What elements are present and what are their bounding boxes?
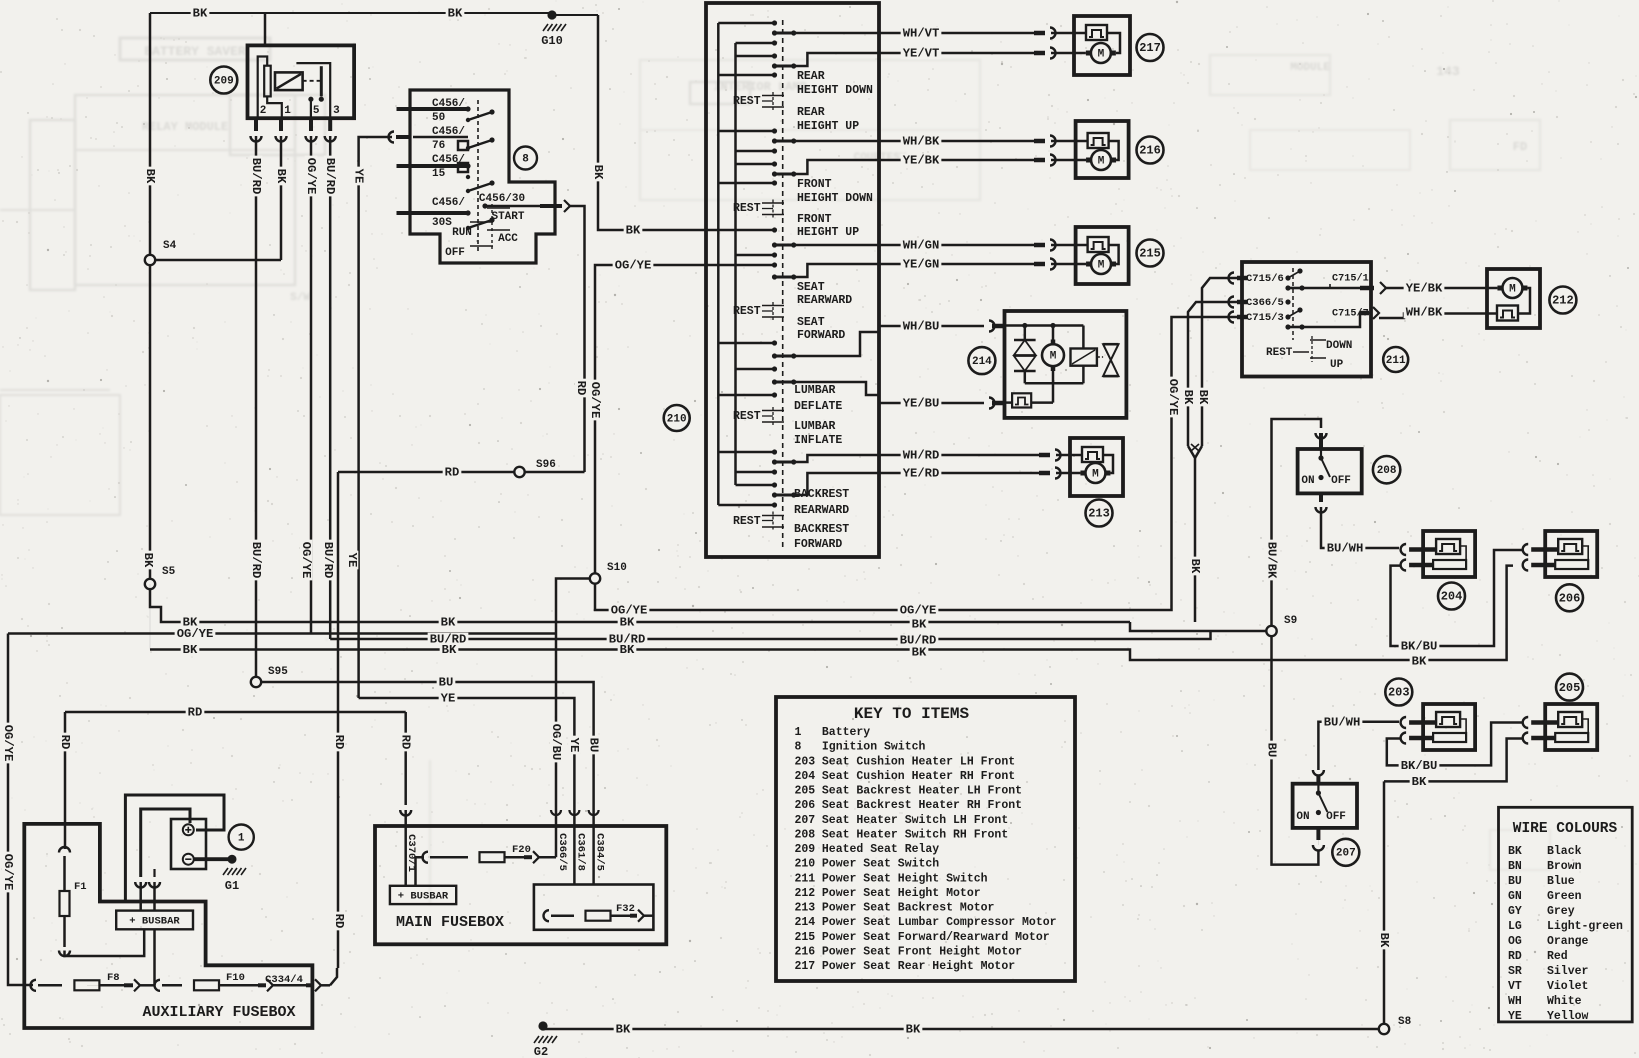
svg-text:BK: BK — [1188, 559, 1202, 574]
svg-text:207: 207 — [1336, 848, 1356, 860]
svg-text:BK: BK — [626, 224, 641, 238]
svg-text:KEY TO ITEMS: KEY TO ITEMS — [854, 705, 970, 723]
svg-text:Brown: Brown — [1547, 860, 1582, 873]
svg-text:YE/VT: YE/VT — [903, 47, 940, 61]
svg-text:F10: F10 — [226, 972, 245, 984]
svg-text:216: 216 — [1139, 144, 1161, 158]
svg-text:213: 213 — [1088, 507, 1110, 521]
svg-text:OG/YE: OG/YE — [1, 725, 15, 762]
svg-text:REST: REST — [733, 410, 761, 423]
svg-text:212: 212 — [1552, 294, 1574, 308]
svg-text:Battery: Battery — [822, 726, 870, 739]
svg-text:BK: BK — [620, 643, 635, 657]
svg-text:Seat Heater Switch LH Front: Seat Heater Switch LH Front — [822, 814, 1008, 827]
svg-text:C456/: C456/ — [432, 197, 465, 209]
svg-text:Power Seat Lumbar Compressor M: Power Seat Lumbar Compressor Motor — [822, 916, 1057, 929]
svg-text:S4: S4 — [163, 240, 177, 252]
svg-text:Violet: Violet — [1547, 980, 1588, 993]
svg-text:BK: BK — [193, 7, 208, 21]
svg-text:REARWARD: REARWARD — [797, 294, 852, 307]
svg-text:C366/5: C366/5 — [556, 833, 568, 871]
svg-text:SEAT: SEAT — [797, 316, 825, 329]
svg-text:216: 216 — [795, 945, 816, 958]
svg-text:WH/GN: WH/GN — [903, 239, 940, 253]
svg-text:RD: RD — [574, 381, 588, 396]
svg-text:BK: BK — [1412, 655, 1427, 669]
svg-text:S96: S96 — [536, 459, 556, 471]
svg-text:FRONT: FRONT — [797, 178, 832, 191]
svg-text:C715/3: C715/3 — [1246, 312, 1284, 324]
svg-text:8: 8 — [795, 741, 802, 754]
svg-text:Power Seat Switch: Power Seat Switch — [822, 858, 939, 871]
svg-text:REST: REST — [733, 515, 761, 528]
svg-text:BK: BK — [1181, 390, 1195, 405]
svg-text:LUMBAR: LUMBAR — [794, 420, 836, 433]
svg-text:REAR: REAR — [797, 106, 825, 119]
svg-text:M: M — [1050, 351, 1057, 363]
svg-text:210: 210 — [667, 413, 687, 425]
svg-text:YE/RD: YE/RD — [903, 467, 940, 481]
svg-text:LG: LG — [1508, 920, 1522, 933]
svg-text:215: 215 — [795, 931, 816, 944]
svg-text:C715/6: C715/6 — [1246, 273, 1284, 285]
svg-text:YE/BK: YE/BK — [1406, 282, 1443, 296]
svg-text:BK: BK — [442, 643, 457, 657]
svg-text:OG/YE: OG/YE — [588, 382, 602, 419]
svg-text:BU: BU — [1264, 743, 1278, 758]
svg-text:YE/GN: YE/GN — [903, 258, 940, 272]
svg-text:204: 204 — [1441, 590, 1463, 604]
svg-text:YE: YE — [441, 692, 456, 706]
svg-text:Seat Cushion Heater RH Front: Seat Cushion Heater RH Front — [822, 770, 1015, 783]
svg-text:REST: REST — [733, 202, 761, 215]
svg-text:White: White — [1547, 995, 1582, 1008]
svg-text:Seat Backrest Heater RH Front: Seat Backrest Heater RH Front — [822, 799, 1022, 812]
svg-text:BACKREST: BACKREST — [794, 488, 849, 501]
svg-text:OFF: OFF — [1331, 475, 1351, 487]
svg-text:BU: BU — [1508, 875, 1522, 888]
svg-text:C370/1: C370/1 — [405, 834, 417, 872]
svg-text:BU/BK: BU/BK — [1264, 542, 1278, 579]
svg-text:GN: GN — [1508, 890, 1522, 903]
svg-text:DEFLATE: DEFLATE — [794, 400, 842, 413]
svg-text:Green: Green — [1547, 890, 1582, 903]
svg-text:Power Seat Forward/Rearward Mo: Power Seat Forward/Rearward Motor — [822, 931, 1050, 944]
svg-text:Grey: Grey — [1547, 905, 1575, 918]
svg-text:215: 215 — [1139, 247, 1161, 261]
svg-text:M: M — [1098, 259, 1105, 271]
svg-text:205: 205 — [1559, 681, 1581, 695]
svg-text:208: 208 — [1377, 465, 1397, 477]
svg-text:RD: RD — [398, 735, 412, 750]
svg-text:50: 50 — [432, 112, 445, 124]
svg-text:M: M — [1092, 468, 1099, 480]
svg-text:F32: F32 — [616, 903, 635, 915]
svg-text:RD: RD — [58, 735, 72, 750]
svg-text:203: 203 — [1388, 686, 1410, 700]
svg-text:76: 76 — [432, 140, 445, 152]
svg-text:MAIN FUSEBOX: MAIN FUSEBOX — [396, 914, 504, 931]
svg-text:S8: S8 — [1398, 1016, 1412, 1028]
svg-text:Power Seat Backrest Motor: Power Seat Backrest Motor — [822, 902, 995, 915]
svg-text:1: 1 — [795, 726, 802, 739]
svg-text:BK: BK — [441, 616, 456, 630]
svg-text:212: 212 — [795, 887, 816, 900]
svg-text:Seat Backrest Heater LH Front: Seat Backrest Heater LH Front — [822, 785, 1022, 798]
svg-text:INFLATE: INFLATE — [794, 434, 842, 447]
svg-text:143: 143 — [1436, 64, 1460, 79]
svg-text:Yellow: Yellow — [1547, 1010, 1589, 1023]
svg-text:REST: REST — [733, 305, 761, 318]
svg-text:C366/5: C366/5 — [1246, 297, 1284, 309]
svg-text:206: 206 — [795, 799, 816, 812]
svg-text:RD: RD — [332, 914, 346, 929]
svg-text:BK: BK — [1377, 933, 1391, 948]
svg-text:OFF: OFF — [445, 247, 465, 259]
svg-text:BK: BK — [143, 169, 157, 184]
svg-text:ON: ON — [1301, 475, 1314, 487]
svg-text:217: 217 — [795, 960, 816, 973]
svg-text:210: 210 — [795, 858, 816, 871]
svg-text:VT: VT — [1508, 980, 1522, 993]
svg-text:OG/YE: OG/YE — [1, 854, 15, 891]
svg-text:RD: RD — [332, 735, 346, 750]
svg-text:F8: F8 — [107, 972, 120, 984]
svg-text:SR: SR — [1508, 965, 1522, 978]
svg-text:BU/RD: BU/RD — [321, 542, 335, 579]
svg-text:Ignition Switch: Ignition Switch — [822, 741, 926, 754]
svg-text:WH/BK: WH/BK — [903, 135, 940, 149]
svg-text:BK: BK — [448, 7, 463, 21]
svg-text:OG/YE: OG/YE — [615, 259, 652, 273]
svg-text:OG/YE: OG/YE — [177, 627, 214, 641]
svg-text:YE/BK: YE/BK — [903, 154, 940, 168]
svg-text:206: 206 — [1559, 591, 1581, 605]
svg-text:213: 213 — [795, 902, 816, 915]
svg-text:RD: RD — [1508, 950, 1522, 963]
svg-text:G1: G1 — [225, 879, 239, 893]
svg-text:BK: BK — [591, 165, 605, 180]
svg-text:BK: BK — [1196, 390, 1210, 405]
svg-text:BU/WH: BU/WH — [1327, 542, 1364, 556]
svg-text:BK: BK — [912, 618, 927, 632]
svg-text:F1: F1 — [74, 881, 87, 893]
svg-text:8: 8 — [522, 153, 529, 165]
svg-text:BK/BU: BK/BU — [1401, 640, 1438, 654]
svg-text:YE/BU: YE/BU — [903, 397, 940, 411]
svg-text:211: 211 — [1386, 355, 1406, 367]
svg-text:205: 205 — [795, 785, 816, 798]
svg-text:HEIGHT UP: HEIGHT UP — [797, 226, 859, 239]
svg-text:YE: YE — [1508, 1010, 1522, 1023]
svg-text:BU/RD: BU/RD — [249, 158, 263, 195]
svg-text:RD: RD — [445, 466, 460, 480]
svg-text:WIRE COLOURS: WIRE COLOURS — [1513, 821, 1618, 837]
svg-text:YE: YE — [351, 169, 365, 184]
svg-text:BK: BK — [906, 1023, 921, 1037]
svg-text:WH/BK: WH/BK — [1406, 306, 1443, 320]
svg-text:BK: BK — [183, 643, 198, 657]
svg-text:3: 3 — [333, 105, 340, 117]
svg-text:WH/RD: WH/RD — [903, 449, 940, 463]
svg-text:C384/5: C384/5 — [594, 833, 606, 871]
svg-text:S5: S5 — [162, 566, 176, 578]
svg-text:214: 214 — [795, 916, 816, 929]
svg-text:BK: BK — [912, 646, 927, 660]
svg-text:S95: S95 — [268, 666, 288, 678]
svg-text:HEIGHT DOWN: HEIGHT DOWN — [797, 84, 873, 97]
svg-text:BK: BK — [141, 553, 155, 568]
svg-text:YE: YE — [567, 738, 581, 753]
svg-text:Seat Heater Switch RH Front: Seat Heater Switch RH Front — [822, 828, 1008, 841]
svg-text:UP: UP — [1330, 359, 1344, 371]
svg-text:Seat Cushion Heater LH Front: Seat Cushion Heater LH Front — [822, 755, 1015, 768]
svg-text:M: M — [1509, 283, 1516, 295]
svg-text:203: 203 — [795, 755, 816, 768]
svg-text:REAR: REAR — [797, 70, 825, 83]
svg-text:S10: S10 — [607, 562, 627, 574]
svg-text:RD: RD — [188, 706, 203, 720]
svg-text:208: 208 — [795, 828, 816, 841]
svg-text:C456/30: C456/30 — [479, 193, 525, 205]
svg-text:FORWARD: FORWARD — [794, 538, 842, 551]
svg-text:Power Seat Height Switch: Power Seat Height Switch — [822, 872, 988, 885]
svg-text:OG/BU: OG/BU — [549, 724, 563, 761]
svg-text:211: 211 — [795, 872, 816, 885]
svg-text:WH: WH — [1508, 995, 1522, 1008]
svg-text:5: 5 — [313, 105, 320, 117]
svg-text:BATTERY SAVER: BATTERY SAVER — [144, 44, 246, 59]
svg-text:AUXILIARY FUSEBOX: AUXILIARY FUSEBOX — [142, 1004, 295, 1021]
svg-text:1: 1 — [284, 105, 291, 117]
svg-text:Power Seat Height Motor: Power Seat Height Motor — [822, 887, 981, 900]
svg-text:M: M — [1098, 48, 1105, 60]
svg-text:+ BUSBAR: + BUSBAR — [398, 890, 449, 902]
svg-text:Black: Black — [1547, 845, 1582, 858]
svg-text:ACC: ACC — [498, 233, 518, 245]
svg-text:BK: BK — [274, 169, 288, 184]
svg-text:YE: YE — [345, 553, 359, 568]
svg-text:HEIGHT DOWN: HEIGHT DOWN — [797, 192, 873, 205]
svg-text:OG/YE: OG/YE — [1166, 379, 1180, 416]
svg-text:2: 2 — [260, 105, 267, 117]
svg-text:BACKREST: BACKREST — [794, 523, 849, 536]
svg-text:209: 209 — [214, 75, 234, 87]
svg-text:C715/1: C715/1 — [1332, 273, 1369, 285]
svg-text:OFF: OFF — [1326, 811, 1346, 823]
svg-text:Orange: Orange — [1547, 935, 1589, 948]
svg-text:+ BUSBAR: + BUSBAR — [129, 915, 180, 927]
svg-text:207: 207 — [795, 814, 816, 827]
svg-text:SEAT: SEAT — [797, 281, 825, 294]
svg-text:START: START — [491, 211, 524, 223]
svg-text:BU/RD: BU/RD — [249, 542, 263, 579]
svg-text:ON: ON — [1296, 811, 1309, 823]
svg-text:REST: REST — [733, 95, 761, 108]
svg-text:C361/8: C361/8 — [575, 833, 587, 871]
svg-text:HEIGHT UP: HEIGHT UP — [797, 120, 859, 133]
svg-text:BK: BK — [616, 1023, 631, 1037]
svg-text:DOWN: DOWN — [1326, 340, 1352, 352]
svg-text:BK: BK — [1508, 845, 1522, 858]
svg-text:FRONT: FRONT — [797, 213, 832, 226]
svg-text:Red: Red — [1547, 950, 1568, 963]
svg-text:204: 204 — [795, 770, 816, 783]
svg-text:G10: G10 — [541, 34, 563, 48]
svg-text:G2: G2 — [534, 1045, 548, 1058]
svg-text:S9: S9 — [1284, 615, 1297, 627]
svg-text:BK: BK — [1412, 775, 1427, 789]
svg-text:BK/BU: BK/BU — [1401, 759, 1438, 773]
svg-text:REST: REST — [1266, 347, 1293, 359]
svg-text:WH/BU: WH/BU — [903, 320, 940, 334]
svg-text:F20: F20 — [512, 844, 531, 856]
svg-text:OG: OG — [1508, 935, 1522, 948]
svg-text:209: 209 — [795, 843, 816, 856]
svg-text:FD: FD — [1513, 140, 1527, 154]
svg-text:WH/VT: WH/VT — [903, 27, 940, 41]
svg-text:FORWARD: FORWARD — [797, 329, 845, 342]
svg-text:OG/YE: OG/YE — [304, 158, 318, 195]
svg-text:Light-green: Light-green — [1547, 920, 1623, 933]
svg-text:GY: GY — [1508, 905, 1522, 918]
svg-text:BK: BK — [620, 616, 635, 630]
svg-text:BN: BN — [1508, 860, 1522, 873]
svg-text:Silver: Silver — [1547, 965, 1589, 978]
svg-text:BU: BU — [586, 738, 600, 753]
svg-text:BU/WH: BU/WH — [1324, 715, 1361, 729]
svg-text:30S: 30S — [432, 217, 452, 229]
svg-text:Blue: Blue — [1547, 875, 1575, 888]
svg-text:15: 15 — [432, 168, 446, 180]
svg-text:S/W: S/W — [290, 292, 310, 304]
svg-text:RELAY MODULE: RELAY MODULE — [142, 120, 228, 134]
svg-text:OG/YE: OG/YE — [900, 604, 937, 618]
svg-text:M: M — [1098, 155, 1105, 167]
svg-text:217: 217 — [1139, 41, 1161, 55]
svg-text:Power Seat Rear Height Motor: Power Seat Rear Height Motor — [822, 960, 1015, 973]
svg-text:Power Seat Front Height Motor: Power Seat Front Height Motor — [822, 945, 1022, 958]
svg-text:1: 1 — [238, 833, 245, 845]
svg-text:BU/RD: BU/RD — [323, 158, 337, 195]
svg-text:Heated Seat Relay: Heated Seat Relay — [822, 843, 939, 856]
svg-text:BU: BU — [439, 676, 454, 690]
svg-text:LUMBAR: LUMBAR — [794, 384, 836, 397]
svg-text:MODULE: MODULE — [1290, 62, 1330, 74]
svg-text:214: 214 — [972, 356, 992, 368]
svg-text:REARWARD: REARWARD — [794, 504, 849, 517]
svg-text:OG/YE: OG/YE — [299, 542, 313, 579]
